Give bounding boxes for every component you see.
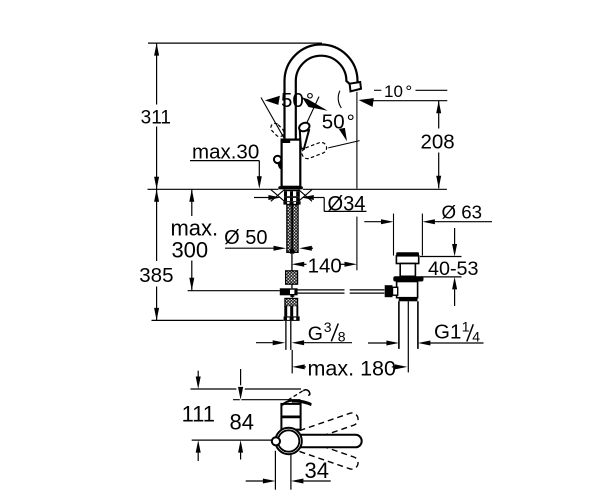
- dimension 311 vertical line with arrows: [154, 43, 159, 189]
- mounting nut: [283, 190, 300, 205]
- drain upper body: [396, 256, 418, 276]
- clamp cross left: [271, 190, 285, 202]
- faucet column: [285, 81, 296, 140]
- Ø34 right arrow and leader: [301, 195, 366, 211]
- supply hose centerline upper: [291, 254, 292, 271]
- svg-text:G: G: [308, 323, 323, 345]
- G3/8 connector: [284, 306, 300, 321]
- counter bottom line left with Ø34 left arrow: [254, 195, 281, 200]
- dashed handle lower-right: [300, 141, 328, 160]
- bottom view: pivot reference line: [192, 439, 274, 441]
- svg-text:1: 1: [462, 318, 470, 334]
- dimension Ø50 arrows: [225, 246, 313, 251]
- faucet body: [282, 140, 301, 187]
- label max 300: [170, 216, 218, 263]
- tee fitting: [280, 284, 298, 298]
- dimension 34 extension lines: [275, 451, 291, 490]
- angle arrows 50 first: [265, 96, 328, 111]
- bottom view: solid lever bar: [286, 435, 362, 448]
- bottom view: 111 top reference line: [191, 388, 302, 390]
- dimension 34 arrows: [246, 479, 331, 484]
- wire: spout tip stream line: [356, 92, 358, 189]
- threaded shank: [287, 205, 298, 254]
- bottom view: pivot outer circle: [275, 428, 301, 454]
- svg-text:4: 4: [472, 328, 480, 344]
- dimension 84 arrows: [235, 369, 246, 460]
- drain lower body: [397, 282, 418, 298]
- dimension 385 vertical line with arrows: [154, 189, 159, 320]
- pop-up rod to drain: [298, 290, 385, 293]
- svg-text:max.30: max.30: [192, 140, 259, 163]
- drain bottom rim: [399, 298, 418, 302]
- G3/8 pipe: [286, 321, 291, 350]
- wire: 385 bottom reference line: [152, 319, 284, 321]
- svg-text:40-53: 40-53: [428, 259, 479, 280]
- bottom view: faucet body: [281, 404, 300, 430]
- wire: extension line at spout top for 311: [148, 42, 322, 44]
- label G 3/8: [308, 319, 346, 345]
- supply hose upper block: [286, 271, 298, 284]
- drain flange: [393, 276, 423, 281]
- bottom view: lever cap profile: [282, 399, 312, 406]
- dimension 140: [292, 255, 357, 278]
- body side circle: [274, 156, 281, 163]
- 10 degree reference lines with arrow: [338, 90, 447, 108]
- dimension 40-53: [420, 228, 479, 306]
- drain Ø63 extension lines: [394, 214, 423, 256]
- angle arrow 50 second: [339, 128, 347, 141]
- handle angle rays: [261, 97, 360, 148]
- svg-text:385: 385: [139, 264, 173, 287]
- svg-text:34: 34: [305, 458, 329, 483]
- drip teardrop: [277, 162, 281, 169]
- svg-text:10°: 10°: [384, 82, 412, 101]
- label G1 1/4: [434, 318, 480, 344]
- bottom view: 84 top reference line: [233, 399, 301, 401]
- dimension 111 arrows: [196, 371, 201, 461]
- spout aerator: [350, 82, 361, 91]
- spout arc inner: [296, 56, 350, 84]
- svg-text:50°: 50°: [322, 111, 355, 134]
- svg-text:Ø 50: Ø 50: [224, 227, 267, 249]
- bottom view: dashed raised lever with tip hook: [288, 390, 310, 400]
- bottom view: dashed lever swung up: [284, 411, 360, 447]
- svg-text:84: 84: [230, 410, 254, 435]
- drain tailpipe: [399, 301, 418, 372]
- counter worktop top line: [148, 188, 447, 190]
- svg-text:8: 8: [338, 328, 346, 344]
- wire: spout reach extension line: [356, 217, 358, 271]
- dimension G3/8 arrows: [256, 340, 352, 345]
- spout arc outer: [285, 44, 359, 84]
- svg-text:208: 208: [420, 131, 454, 154]
- supply hose lower block: [285, 298, 298, 306]
- dimension 208: [420, 101, 454, 189]
- wire: left supply line to max300 reference: [188, 290, 280, 292]
- dashed handle upper-left: [269, 122, 286, 139]
- svg-text:300: 300: [171, 238, 208, 263]
- dimension max 180: [292, 357, 407, 381]
- dimension G1 1/4 arrows: [368, 341, 484, 346]
- svg-text:max. 180: max. 180: [308, 357, 396, 381]
- dimension max300 vertical line with arrows: [189, 189, 194, 290]
- svg-text:G1: G1: [434, 321, 461, 344]
- svg-text:111: 111: [182, 401, 215, 426]
- svg-text:311: 311: [141, 108, 171, 129]
- wire: faucet centerline lower: [291, 350, 293, 374]
- solid handle: [298, 121, 311, 149]
- bottom view: dashed lever swung down: [284, 434, 360, 470]
- svg-text:Ø34: Ø34: [328, 192, 366, 215]
- svg-text:140: 140: [308, 255, 342, 278]
- svg-text:Ø 63: Ø 63: [442, 202, 483, 222]
- label max.30 with underline and leader arrow: [190, 140, 262, 189]
- label 385: [139, 264, 174, 288]
- svg-text:3: 3: [324, 319, 332, 335]
- drain cap: [396, 252, 419, 256]
- clamp cross right: [299, 190, 313, 202]
- escutcheon base plate: [278, 186, 303, 189]
- drain rod tab: [385, 285, 398, 297]
- bottom view: knob circle: [272, 437, 280, 445]
- dimension Ø63 arrows: [364, 219, 492, 224]
- bottom view: pivot ring: [278, 430, 299, 451]
